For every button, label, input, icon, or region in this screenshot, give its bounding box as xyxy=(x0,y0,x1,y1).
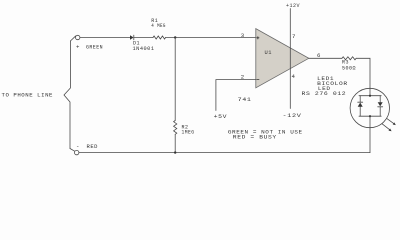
wire +12V to -12V pins 7 and 4 xyxy=(289,9,291,109)
node + terminal GREEN xyxy=(76,35,80,39)
svg-text:500Ω: 500Ω xyxy=(342,65,356,72)
svg-text:1N4001: 1N4001 xyxy=(133,45,155,52)
svg-text:U1: U1 xyxy=(265,49,273,56)
svg-text:741: 741 xyxy=(238,96,252,103)
wire junction to R2 xyxy=(174,38,176,121)
svg-text:6: 6 xyxy=(317,52,321,59)
op-amp U1 741 xyxy=(256,29,309,88)
wire LED top bar xyxy=(359,95,381,97)
wire bottom rail xyxy=(79,152,370,154)
svg-text:2: 2 xyxy=(241,74,245,81)
svg-text:+5V: +5V xyxy=(214,113,228,120)
svg-text:GREEN: GREEN xyxy=(86,44,103,51)
node - terminal RED xyxy=(75,150,79,154)
diode D1 1N4001 xyxy=(130,35,134,40)
svg-text:1MEG: 1MEG xyxy=(182,128,195,135)
svg-text:RS 276 012: RS 276 012 xyxy=(302,90,347,97)
resistor R2 1MEG xyxy=(174,121,177,135)
wire pin 2 to +5V xyxy=(216,80,256,111)
wire R2 to bottom rail xyxy=(174,134,176,152)
wire R3 to LED top xyxy=(356,58,370,95)
LED1 bicolor circle xyxy=(350,88,389,127)
wire diode to R1 xyxy=(134,37,153,39)
svg-text:+: + xyxy=(76,44,80,51)
svg-text:TO PHONE LINE: TO PHONE LINE xyxy=(2,92,54,99)
wire left rail with break xyxy=(64,41,70,149)
svg-text:7: 7 xyxy=(292,33,296,40)
svg-text:4: 4 xyxy=(292,73,296,80)
node LED top junction xyxy=(369,95,371,97)
node junction top xyxy=(174,36,176,38)
LED emission arrow 1 xyxy=(387,119,396,126)
node junction bottom xyxy=(174,151,176,153)
svg-text:-: - xyxy=(76,143,80,150)
pin 2 minus xyxy=(257,79,259,81)
svg-text:-12V: -12V xyxy=(283,112,302,119)
wire LED bottom bar xyxy=(359,115,381,117)
svg-text:RED = BUSY: RED = BUSY xyxy=(233,133,277,140)
wire top-left chamfer xyxy=(70,36,75,41)
resistor R3 500 ohm xyxy=(342,57,356,60)
wire bottom-left chamfer xyxy=(70,149,75,152)
diode LED left (up) xyxy=(358,96,363,117)
svg-text:4 MEG: 4 MEG xyxy=(151,22,166,29)
LED emission arrow 2 xyxy=(382,124,392,132)
svg-text:+12V: +12V xyxy=(286,2,300,9)
wire pin 6 output xyxy=(309,57,342,59)
svg-text:3: 3 xyxy=(241,32,245,39)
resistor R1 4 MEG xyxy=(153,36,166,39)
wire R1 to op-amp pin 3 xyxy=(166,37,256,39)
svg-text:RED: RED xyxy=(87,143,99,150)
node LED bottom junction xyxy=(369,115,371,117)
diode LED right (down) xyxy=(378,96,383,117)
pin 3 plus xyxy=(257,37,259,39)
wire top rail left xyxy=(80,37,130,39)
wire LED to bottom rail xyxy=(369,116,371,152)
